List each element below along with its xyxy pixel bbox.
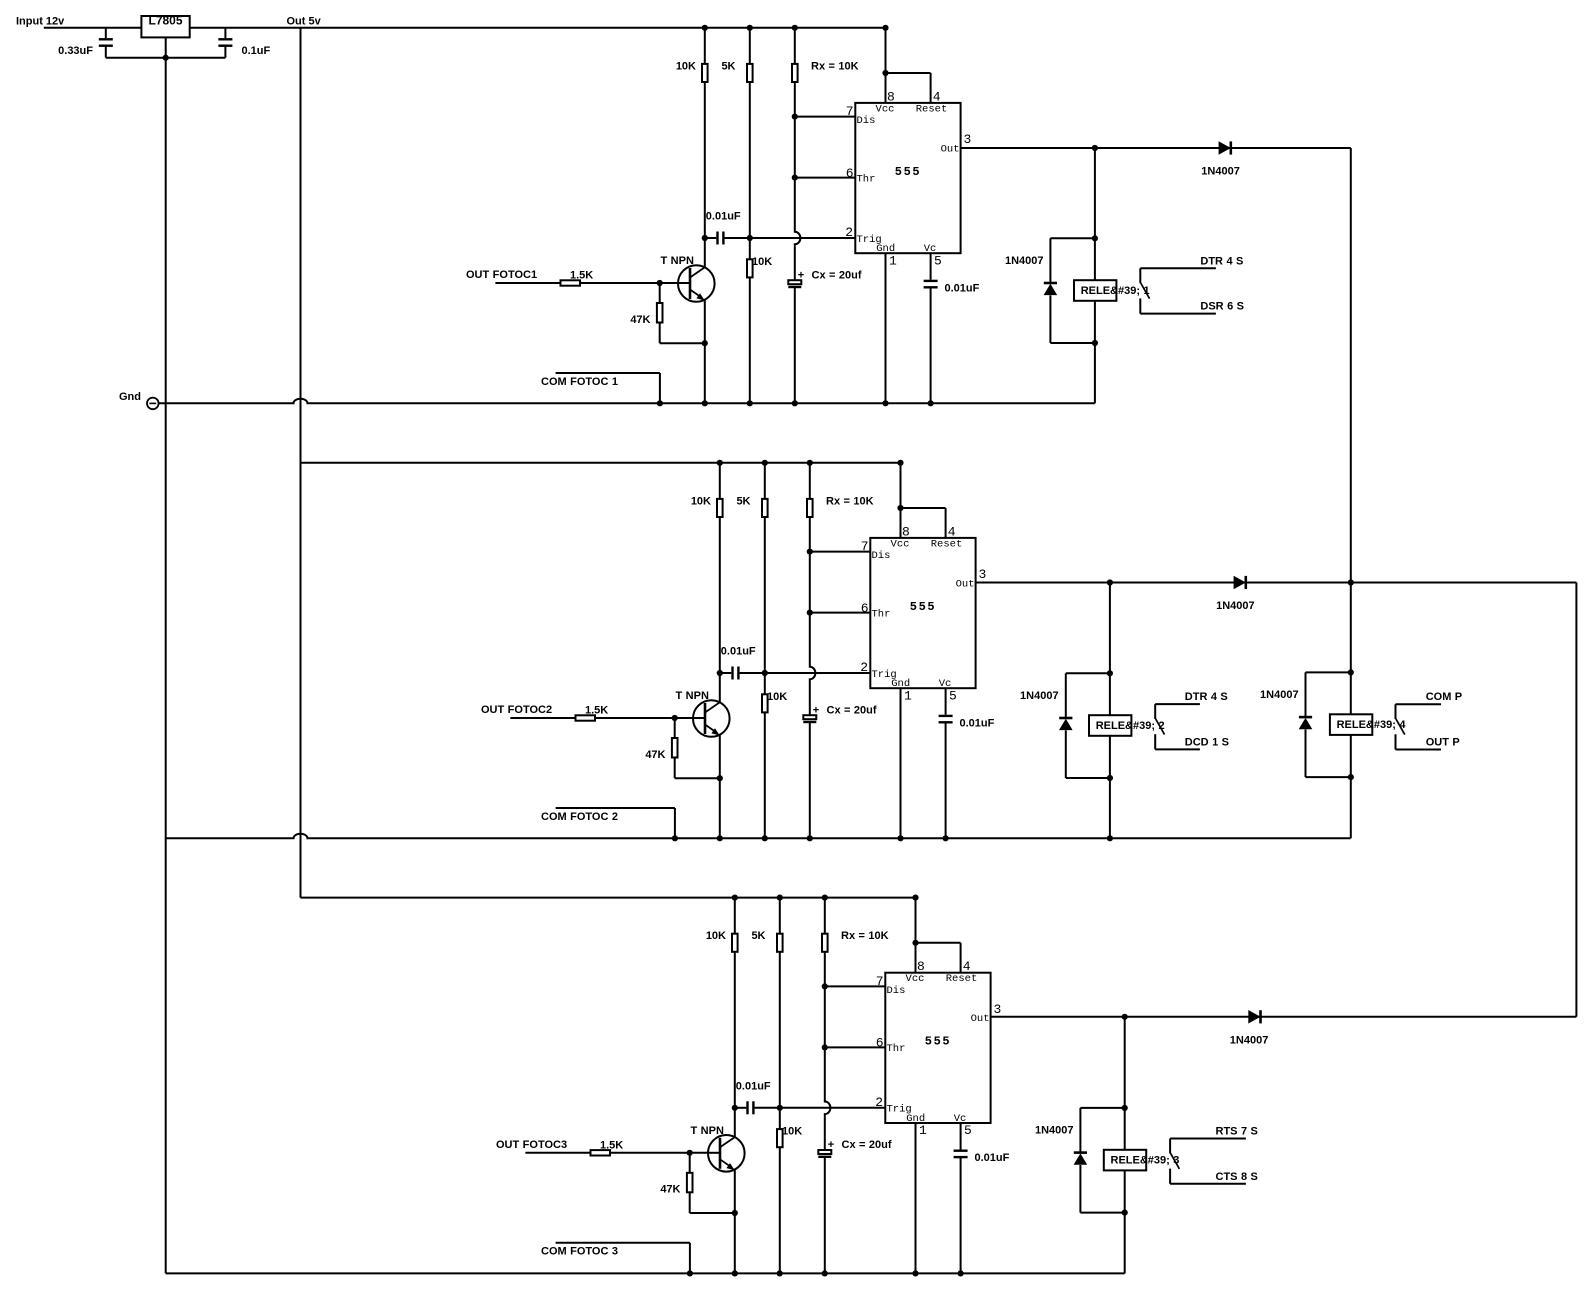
resistor 5K block 2 xyxy=(764,463,766,499)
wire ground link xyxy=(106,57,226,59)
svg-text:7: 7 xyxy=(876,974,884,989)
svg-text:5K: 5K xyxy=(736,495,750,507)
wire Rx to Dis/Thr with hop over trig block 3 xyxy=(825,952,831,1150)
junction relay 3 snubber top xyxy=(1122,1105,1128,1111)
svg-text:RELE&#39; 3: RELE&#39; 3 xyxy=(1111,1155,1180,1167)
junction trig/10K node block 3 xyxy=(777,1105,783,1111)
wire relay 2 to ground rail xyxy=(1109,778,1111,838)
transistor Q3 NPN xyxy=(708,1135,745,1172)
wire Vcc-Reset loop block 1 xyxy=(886,72,931,74)
wire output 1 down to node xyxy=(1350,148,1352,583)
junction on 5V rail block 1 xyxy=(747,25,753,31)
svg-text:DTR 4 S: DTR 4 S xyxy=(1200,255,1243,267)
pin 1 Gnd wire block 2 xyxy=(900,688,902,838)
wire Thr pin 6 stub block 1 xyxy=(795,177,856,179)
svg-text:T NPN: T NPN xyxy=(676,690,709,702)
wire snubber loop bottom xyxy=(1080,1212,1124,1214)
wire relay 4 coil top xyxy=(1350,583,1352,673)
junction relay 1 snubber top xyxy=(1092,235,1098,241)
switch contact top RTS 7 S xyxy=(1170,1138,1246,1140)
svg-text:RELE&#39; 4: RELE&#39; 4 xyxy=(1337,719,1407,731)
pin 5 wire to capacitor block 1 xyxy=(930,253,932,280)
junction emitter/47K block 2 xyxy=(717,775,723,781)
junction on ground rail xyxy=(882,400,888,406)
relay RELE' 4 coil box xyxy=(1330,714,1372,735)
switch pole bottom xyxy=(1169,1169,1171,1184)
svg-text:DTR 4 S: DTR 4 S xyxy=(1185,691,1228,703)
wire control cap to ground block 3 xyxy=(960,1157,962,1273)
svg-text:10K: 10K xyxy=(676,60,696,72)
svg-text:1.5K: 1.5K xyxy=(570,270,593,282)
junction emitter/47K block 3 xyxy=(732,1210,738,1216)
pin 8 Vcc wire block 3 xyxy=(915,898,917,973)
junction on ground rail xyxy=(897,835,903,841)
wire control cap to ground block 1 xyxy=(930,287,932,403)
junction node relay 4 top xyxy=(1348,579,1354,585)
svg-text:0.01uF: 0.01uF xyxy=(706,211,741,223)
capacitor 0.01uF control pin block 1 xyxy=(924,280,938,282)
junction Thr block 3 xyxy=(822,1044,828,1050)
transistor Q2 NPN xyxy=(693,700,730,737)
svg-text:DCD 1 S: DCD 1 S xyxy=(1185,736,1229,748)
resistor R 10K block 2 (base pull-up) xyxy=(719,463,721,499)
svg-text:Cx = 20uf: Cx = 20uf xyxy=(812,269,862,281)
junction on 5V rail block 3 xyxy=(912,895,918,901)
junction base node block 1 xyxy=(657,280,663,286)
junction output 2 to relay 2 xyxy=(1107,579,1113,585)
svg-text:6: 6 xyxy=(861,601,869,616)
wire Cx to ground block 1 xyxy=(794,287,796,403)
svg-text:Thr: Thr xyxy=(872,608,891,620)
svg-text:47K: 47K xyxy=(645,749,665,761)
wire regulator ground pin down xyxy=(165,37,167,1273)
svg-text:4: 4 xyxy=(963,959,971,974)
junction relay 3 snubber bottom xyxy=(1122,1210,1128,1216)
svg-text:4: 4 xyxy=(933,89,941,104)
svg-text:0.01uF: 0.01uF xyxy=(945,282,980,294)
wire trig line to pin 2 block 3 xyxy=(755,1107,886,1109)
svg-text:Out: Out xyxy=(971,1013,990,1025)
svg-text:7: 7 xyxy=(846,104,854,119)
svg-text:3: 3 xyxy=(979,567,987,582)
IC U1 555 timer box xyxy=(855,103,960,253)
svg-text:10K: 10K xyxy=(691,495,711,507)
junction relay 2 snubber bottom xyxy=(1107,775,1113,781)
svg-text:0.01uF: 0.01uF xyxy=(960,717,995,729)
diode D2 1N4007 series xyxy=(1234,576,1246,590)
resistor 10K lower block 1 xyxy=(749,238,751,259)
wire relay 3 to ground rail xyxy=(1124,1213,1126,1274)
junction on 5V rail block 1 xyxy=(792,25,798,31)
svg-text:10K: 10K xyxy=(782,1126,802,1138)
switch contact top COM P xyxy=(1396,703,1442,705)
svg-text:Reset: Reset xyxy=(946,973,978,985)
svg-text:COM P: COM P xyxy=(1426,691,1462,703)
wire 0.33uF to ground link xyxy=(105,46,107,58)
pin 1 Gnd wire block 3 xyxy=(915,1123,917,1273)
svg-text:RELE&#39; 2: RELE&#39; 2 xyxy=(1096,720,1165,732)
wire 10K lower to ground block 1 xyxy=(749,277,751,403)
wire 0.1uF to ground link xyxy=(224,46,226,58)
svg-text:555: 555 xyxy=(925,1035,951,1049)
svg-text:Cx = 20uf: Cx = 20uf xyxy=(842,1139,892,1151)
switch pole bottom xyxy=(1154,734,1156,749)
wire 5K to trig node block 2 xyxy=(764,517,766,673)
junction trig/10K node block 1 xyxy=(747,235,753,241)
wire snubber loop top xyxy=(1306,671,1351,673)
svg-text:555: 555 xyxy=(910,600,936,614)
resistor 1.5K block 2 xyxy=(576,715,596,720)
wire 1.5K to base block 3 xyxy=(610,1152,709,1154)
resistor R 10K block 1 (base pull-up) xyxy=(704,28,706,64)
wire node to block 3 output vertical xyxy=(1575,583,1577,1017)
wire 5K to trig node block 1 xyxy=(749,82,751,238)
svg-text:RTS 7 S: RTS 7 S xyxy=(1216,1126,1258,1138)
switch pole bottom xyxy=(1395,734,1397,749)
wire relay 3 top xyxy=(1124,1017,1126,1108)
junction on 5V rail block 1 xyxy=(882,25,888,31)
pin 1 Gnd wire block 1 xyxy=(885,253,887,403)
wire input to regulator xyxy=(44,27,142,29)
svg-text:10K: 10K xyxy=(767,691,787,703)
switch pole bottom xyxy=(1139,298,1141,313)
svg-text:1: 1 xyxy=(904,688,912,703)
switch contact bottom DSR 6 S xyxy=(1140,313,1216,315)
resistor 47K block 2 xyxy=(674,718,676,738)
svg-text:RELE&#39; 1: RELE&#39; 1 xyxy=(1081,285,1150,297)
junction Dis block 3 xyxy=(822,983,828,989)
wire OUT FOTOC1 lead xyxy=(495,282,560,284)
capacitor 0.01uF control pin block 3 xyxy=(954,1149,968,1151)
junction on 5V rail block 3 xyxy=(822,895,828,901)
svg-text:8: 8 xyxy=(902,524,910,539)
diode 1N4007 snubber xyxy=(1079,1108,1081,1153)
wire COM FOTOC 3 xyxy=(556,1242,690,1244)
junction Vcc/Reset loop block 2 xyxy=(897,505,903,511)
junction on 5V rail block 3 xyxy=(732,895,738,901)
regulator U0 L7805 box xyxy=(141,16,189,37)
svg-text:5K: 5K xyxy=(721,60,735,72)
svg-text:Dis: Dis xyxy=(872,550,891,562)
wire Dis pin 7 stub block 3 xyxy=(825,985,886,987)
IC U3 555 timer box xyxy=(885,973,990,1123)
switch contact bottom OUT P xyxy=(1396,749,1442,751)
svg-text:Gnd: Gnd xyxy=(119,391,141,403)
svg-text:Input 12v: Input 12v xyxy=(16,15,65,27)
wire control cap to ground block 2 xyxy=(945,722,947,838)
svg-text:L7805: L7805 xyxy=(148,14,182,28)
svg-text:47K: 47K xyxy=(660,1184,680,1196)
svg-text:CTS 8 S: CTS 8 S xyxy=(1216,1171,1258,1183)
svg-text:COM FOTOC 1: COM FOTOC 1 xyxy=(541,376,618,388)
wire relay RELE' 2 coil xyxy=(1109,673,1111,778)
svg-text:T NPN: T NPN xyxy=(691,1125,724,1137)
junction Dis block 1 xyxy=(792,114,798,120)
wire snubber loop bottom xyxy=(1066,777,1110,779)
junction on ground rail xyxy=(807,835,813,841)
junction on 5V rail block 1 xyxy=(702,25,708,31)
wire 47K to emitter block 2 xyxy=(674,758,676,779)
svg-text:1N4007: 1N4007 xyxy=(1260,689,1299,701)
svg-text:1.5K: 1.5K xyxy=(600,1139,623,1151)
svg-text:+: + xyxy=(828,1139,834,1151)
svg-text:Dis: Dis xyxy=(887,985,906,997)
pin 8 Vcc wire block 2 xyxy=(900,463,902,538)
diode 1N4007 snubber xyxy=(1049,238,1051,283)
svg-text:4: 4 xyxy=(948,524,956,539)
svg-text:Out: Out xyxy=(941,143,960,155)
svg-text:+: + xyxy=(813,704,819,716)
svg-text:5K: 5K xyxy=(751,930,765,942)
junction on ground rail xyxy=(912,1270,918,1276)
svg-text:1N4007: 1N4007 xyxy=(1230,1035,1269,1047)
switch pole xyxy=(1169,1139,1171,1154)
svg-text:Rx = 10K: Rx = 10K xyxy=(811,60,859,72)
svg-text:5: 5 xyxy=(964,1123,972,1138)
wire ground rail block 1 xyxy=(159,399,1095,404)
svg-text:Out 5v: Out 5v xyxy=(287,15,322,27)
wire OUT FOTOC2 lead xyxy=(510,717,575,719)
junction on 5V rail block 2 xyxy=(807,460,813,466)
wire 5V distribution vertical xyxy=(300,28,302,898)
switch lever xyxy=(1396,719,1405,735)
ground terminal symbol xyxy=(147,398,159,410)
resistor R 10K block 3 (base pull-up) xyxy=(734,898,736,934)
wire 10K lower to ground block 3 xyxy=(779,1147,781,1273)
svg-text:10K: 10K xyxy=(706,930,726,942)
junction regulator ground xyxy=(163,55,169,61)
junction on 5V rail block 2 xyxy=(762,460,768,466)
junction on ground rail xyxy=(928,400,934,406)
junction on ground rail xyxy=(732,1270,738,1276)
svg-text:1N4007: 1N4007 xyxy=(1216,600,1255,612)
junction on ground rail xyxy=(687,1270,693,1276)
junction on ground rail xyxy=(792,400,798,406)
junction Vcc/Reset loop block 3 xyxy=(912,940,918,946)
wire relay RELE' 4 coil xyxy=(1350,672,1352,777)
switch pole xyxy=(1154,704,1156,719)
svg-text:OUT FOTOC2: OUT FOTOC2 xyxy=(481,704,552,716)
wire 10K to collector node block 1 xyxy=(704,82,706,238)
junction relay 4 snubber top xyxy=(1348,669,1354,675)
wire COM FOTOC 2 xyxy=(556,807,675,809)
switch lever xyxy=(1141,283,1150,299)
switch contact top DTR 4 S xyxy=(1155,703,1200,705)
svg-text:2: 2 xyxy=(845,225,853,240)
wire Thr pin 6 stub block 3 xyxy=(825,1046,886,1048)
svg-text:1N4007: 1N4007 xyxy=(1005,255,1044,267)
svg-text:1: 1 xyxy=(919,1123,927,1138)
switch pole xyxy=(1395,704,1397,719)
svg-text:Reset: Reset xyxy=(916,103,948,115)
svg-text:Cx = 20uf: Cx = 20uf xyxy=(827,704,877,716)
svg-text:1: 1 xyxy=(889,253,897,268)
junction relay 1 snubber bottom xyxy=(1092,340,1098,346)
svg-text:1N4007: 1N4007 xyxy=(1201,166,1240,178)
junction Vcc/Reset loop block 1 xyxy=(882,70,888,76)
capacitor Cx = 20uf block 3 xyxy=(818,1150,831,1154)
svg-text:0.01uF: 0.01uF xyxy=(975,1152,1010,1164)
switch lever xyxy=(1156,719,1165,735)
junction on ground rail xyxy=(702,400,708,406)
svg-text:Vcc: Vcc xyxy=(906,973,925,985)
resistor Rx 10K block 3 xyxy=(824,898,826,934)
svg-text:555: 555 xyxy=(895,165,921,179)
capacitor 0.1uF xyxy=(218,38,232,40)
wire 1.5K to base block 2 xyxy=(595,717,694,719)
junction Dis block 2 xyxy=(807,549,813,555)
resistor Rx 10K block 1 xyxy=(794,28,796,64)
junction on 5V rail block 2 xyxy=(717,460,723,466)
svg-text:OUT FOTOC3: OUT FOTOC3 xyxy=(496,1139,567,1151)
junction trig/10K node block 2 xyxy=(762,670,768,676)
wire snubber loop top xyxy=(1080,1107,1124,1109)
pin 8 Vcc wire block 1 xyxy=(885,28,887,103)
svg-text:Reset: Reset xyxy=(931,538,963,550)
wire Vcc-Reset loop block 3 xyxy=(916,942,961,944)
junction base node block 3 xyxy=(687,1150,693,1156)
wire collector to cap node block 3 xyxy=(734,1108,736,1137)
svg-text:+: + xyxy=(798,269,804,281)
junction relay 2 snubber top xyxy=(1107,670,1113,676)
svg-text:8: 8 xyxy=(917,959,925,974)
wire Dis pin 7 stub block 1 xyxy=(795,116,856,118)
svg-text:0.33uF: 0.33uF xyxy=(58,45,93,57)
resistor 1.5K block 3 xyxy=(591,1150,611,1155)
svg-text:0.01uF: 0.01uF xyxy=(721,646,756,658)
wire snubber loop top xyxy=(1050,237,1095,239)
wire emitter to ground rail block 3 xyxy=(734,1213,736,1273)
svg-text:T NPN: T NPN xyxy=(661,255,694,267)
svg-text:1N4007: 1N4007 xyxy=(1035,1124,1074,1136)
wire 47K to emitter block 3 xyxy=(689,1192,691,1213)
capacitor 0.01uF control pin block 2 xyxy=(939,715,953,717)
wire Thr pin 6 stub block 2 xyxy=(810,612,871,614)
relay RELE' 3 coil box xyxy=(1104,1150,1146,1171)
wire relay 2 top xyxy=(1109,583,1111,674)
diode D1 1N4007 series xyxy=(1219,141,1231,155)
relay RELE' 1 coil box xyxy=(1074,280,1116,301)
svg-text:47K: 47K xyxy=(630,314,650,326)
svg-text:3: 3 xyxy=(964,132,972,147)
wire collector to cap node block 2 xyxy=(719,673,721,702)
svg-text:5: 5 xyxy=(934,253,942,268)
junction on 5V rail block 3 xyxy=(777,895,783,901)
svg-text:6: 6 xyxy=(876,1036,884,1051)
wire 10K to collector node block 3 xyxy=(734,952,736,1108)
svg-text:Thr: Thr xyxy=(887,1043,906,1055)
diode 1N4007 snubber xyxy=(1305,672,1307,717)
resistor Rx 10K block 2 xyxy=(809,463,811,499)
svg-text:1N4007: 1N4007 xyxy=(1020,690,1059,702)
wire snubber loop top xyxy=(1066,672,1110,674)
capacitor Cx = 20uf block 1 xyxy=(788,280,801,284)
svg-text:COM FOTOC 3: COM FOTOC 3 xyxy=(541,1246,618,1258)
svg-text:Dis: Dis xyxy=(857,115,876,127)
node 5V rail block 1 xyxy=(190,27,886,29)
switch contact top DTR 4 S xyxy=(1140,267,1216,269)
junction on ground rail xyxy=(822,1270,828,1276)
wire trig line to pin 2 block 2 xyxy=(740,672,871,674)
junction on 5V rail block 2 xyxy=(897,460,903,466)
resistor 5K block 1 xyxy=(749,28,751,64)
wire trig line to pin 2 block 1 xyxy=(725,237,856,239)
wire 555 #2 output xyxy=(976,582,1577,584)
wire collector to cap node block 1 xyxy=(704,238,706,267)
switch contact bottom CTS 8 S xyxy=(1170,1183,1246,1185)
capacitor 0.01uF trigger coupling block 2 xyxy=(720,672,732,674)
wire snubber loop bottom xyxy=(1306,776,1351,778)
capacitor 0.33uF xyxy=(99,38,113,40)
wire 10K to collector node block 2 xyxy=(719,517,721,673)
diode 1N4007 snubber xyxy=(1065,673,1067,718)
wire relay RELE' 3 coil xyxy=(1124,1108,1126,1213)
svg-text:OUT FOTOC1: OUT FOTOC1 xyxy=(466,269,537,281)
svg-text:Rx = 10K: Rx = 10K xyxy=(841,930,889,942)
svg-text:0.01uF: 0.01uF xyxy=(736,1080,771,1092)
capacitor 0.1uF lead xyxy=(224,28,226,38)
junction on ground rail xyxy=(717,835,723,841)
switch pole xyxy=(1139,268,1141,283)
transistor Q1 NPN xyxy=(678,265,715,302)
svg-text:Thr: Thr xyxy=(857,173,876,185)
wire snubber loop bottom xyxy=(1050,342,1095,344)
svg-text:DSR 6 S: DSR 6 S xyxy=(1200,301,1244,313)
wire 555 #1 output xyxy=(961,147,1351,149)
svg-text:2: 2 xyxy=(860,660,868,675)
wire relay 1 to ground rail xyxy=(1094,343,1096,403)
svg-text:OUT P: OUT P xyxy=(1426,737,1460,749)
IC U2 555 timer box xyxy=(870,538,975,688)
switch lever xyxy=(1171,1153,1180,1169)
junction emitter/47K block 1 xyxy=(702,340,708,346)
wire 47K to emitter block 1 xyxy=(659,323,661,344)
junction on ground rail xyxy=(657,400,663,406)
junction output to relay 1 xyxy=(1092,145,1098,151)
capacitor Cx = 20uf block 2 xyxy=(803,715,816,719)
wire ground rail block 2 xyxy=(166,834,1351,839)
junction output 3 to relay 3 xyxy=(1122,1014,1128,1020)
resistor 10K lower block 2 xyxy=(764,673,766,694)
wire OUT FOTOC3 lead xyxy=(525,1152,590,1154)
svg-text:Vcc: Vcc xyxy=(876,103,895,115)
wire relay 1 top xyxy=(1094,148,1096,238)
svg-text:Out: Out xyxy=(956,578,975,590)
junction relay 4 snubber bottom xyxy=(1348,774,1354,780)
junction on ground rail xyxy=(747,400,753,406)
svg-text:3: 3 xyxy=(994,1002,1002,1017)
capacitor 0.33uF input lead xyxy=(105,28,107,38)
svg-text:10K: 10K xyxy=(752,256,772,268)
wire Rx to Dis/Thr with hop over trig block 2 xyxy=(810,517,816,715)
wire Dis pin 7 stub block 2 xyxy=(810,551,871,553)
junction on ground rail xyxy=(762,835,768,841)
svg-text:Vcc: Vcc xyxy=(891,538,910,550)
junction on ground rail xyxy=(958,1270,964,1276)
svg-text:6: 6 xyxy=(846,166,854,181)
wire 5K to trig node block 3 xyxy=(779,952,781,1108)
junction collector/cap node block 2 xyxy=(717,670,723,676)
wire emitter to ground rail block 1 xyxy=(704,343,706,403)
svg-text:5: 5 xyxy=(949,688,957,703)
wire 1.5K to base block 1 xyxy=(580,282,679,284)
junction base node block 2 xyxy=(672,715,678,721)
switch contact bottom DCD 1 S xyxy=(1155,748,1200,750)
wire emitter down block 2 xyxy=(719,735,721,778)
node 5V rail block 2 xyxy=(301,462,901,464)
wire 555 #3 output xyxy=(991,1016,1577,1018)
junction Thr block 2 xyxy=(807,610,813,616)
